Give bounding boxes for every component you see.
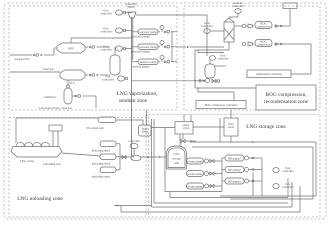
HP pump 1: [222, 155, 262, 161]
box: zone B legend: [256, 85, 316, 110]
svg-text:[MIX]: [MIX]: [127, 5, 135, 9]
SCV vaporizer: [60, 70, 85, 85]
wire: SCV outlet to drum: [85, 74, 110, 77]
wire: pump discharge header: [221, 158, 223, 192]
junction: unloading header: [147, 156, 149, 158]
in-tank pump 3: [186, 183, 210, 189]
wire: unloading main line: [62, 153, 167, 158]
unloading arm 1: [92, 141, 120, 153]
svg-text:controller: controller: [100, 48, 111, 52]
controller: level controller: [201, 21, 224, 33]
wire: compressor1 out: [253, 9, 291, 28]
wire: main sendout bus: [130, 17, 132, 156]
svg-text:HP pump1: HP pump1: [228, 156, 241, 160]
svg-text:unloading arm2: unloading arm2: [92, 162, 111, 166]
recondensate drum vessel: [205, 60, 226, 82]
svg-text:water liquid [vap] + flue gas: water liquid [vap] + flue gas: [38, 106, 72, 110]
svg-text:ORV: ORV: [68, 47, 75, 51]
svg-text:sendout pump1: sendout pump1: [132, 65, 151, 69]
svg-text:NG return arm: NG return arm: [86, 126, 104, 130]
svg-text:unloading arm3: unloading arm3: [92, 175, 111, 179]
svg-text:in-tank pump2: in-tank pump2: [186, 172, 204, 176]
BOG compressor 2: [242, 40, 272, 47]
wire: zone A to recondenser: [177, 46, 224, 48]
controller: flow controller FC5: [273, 166, 294, 173]
svg-text:controller: controller: [282, 169, 293, 173]
valve: unloading line: [122, 155, 126, 158]
wire: SCV to combustor: [67, 80, 69, 85]
wire: seawater inlet to ORV: [10, 48, 57, 56]
wire: FC2 to bus: [125, 30, 132, 32]
svg-text:controller: controller: [100, 12, 111, 16]
svg-text:seawater pump1: seawater pump1: [131, 35, 151, 39]
svg-text:controller: controller: [100, 30, 111, 34]
valve: in-tank pump 2 discharge: [210, 172, 222, 175]
box: flare stack: [224, 118, 238, 136]
svg-text:in-tank pump1: in-tank pump1: [186, 159, 204, 163]
wire: combustor outlet: [72, 95, 96, 108]
wire: vessel top to bus: [114, 47, 116, 55]
wire: recondenser to compressors: [234, 25, 248, 27]
wire: drum line to tank dome: [164, 128, 166, 151]
svg-text:recondensation zone: recondensation zone: [264, 99, 309, 105]
svg-text:storage: storage: [172, 157, 181, 161]
wire: right riser to temperature controller: [310, 44, 312, 74]
wire: ORV outlet to bus: [85, 46, 110, 49]
wire: storage header right: [190, 118, 316, 196]
LNG storage tank: [167, 146, 187, 169]
NG return arm: [86, 117, 116, 130]
valve: tank inlet: [181, 134, 196, 143]
svg-text:unloading arm1: unloading arm1: [92, 149, 111, 153]
controller: flow controller FC2: [100, 27, 125, 34]
svg-text:HP pump3: HP pump3: [228, 179, 241, 183]
valve and meter after seawater pump P2: [158, 41, 177, 49]
mixer MIX: [125, 2, 137, 18]
in-tank pump 2: [186, 171, 210, 177]
valve and meter after sendout pump P3: [158, 56, 177, 64]
valve and meter after seawater pump P1: [158, 26, 177, 34]
svg-text:controller: controller: [102, 78, 113, 82]
in-tank pump 1: [186, 158, 210, 164]
svg-text:tank: tank: [174, 161, 180, 165]
combustor: [44, 85, 72, 104]
svg-text:in-tank pump3: in-tank pump3: [186, 184, 204, 188]
HP pump 2: [222, 167, 262, 173]
svg-text:unloading arm: unloading arm: [43, 162, 61, 166]
unloading arm tower: [43, 125, 62, 166]
svg-text:seawater pump1: seawater pump1: [131, 50, 151, 54]
wire: storage header 2: [192, 147, 313, 199]
unloading arm 3: [92, 167, 120, 179]
seawater pump P1: [138, 29, 158, 35]
svg-text:SCV: SCV: [69, 81, 76, 85]
svg-text:controller: controller: [232, 4, 243, 8]
box: temperature controller: [247, 70, 291, 78]
wire: recirculation line 2: [152, 119, 293, 207]
controller: flow controller FC6: [273, 182, 294, 189]
drain drum: [139, 125, 152, 136]
knockout drum vessel: [110, 55, 120, 75]
booster pump: [131, 155, 141, 161]
zone box: LNG storage: [149, 115, 321, 218]
svg-text:LNG vaporization,: LNG vaporization,: [117, 91, 158, 97]
svg-text:HP pump2: HP pump2: [228, 168, 241, 172]
wire: drain drum to safety valve: [151, 127, 175, 129]
svg-text:sendout pump: sendout pump: [140, 60, 157, 64]
valve: in-tank pump 1 discharge: [210, 159, 222, 162]
wire: flare bottom: [230, 136, 232, 142]
controller: BOG blower controller: [128, 139, 139, 155]
wire: ORV top: [70, 38, 72, 43]
HP pump 3: [222, 178, 262, 184]
svg-text:combustor: combustor: [44, 95, 56, 99]
ORV vaporizer: [57, 43, 85, 53]
svg-text:seawater/NG: seawater/NG: [14, 57, 30, 61]
svg-text:sendout zone: sendout zone: [119, 98, 148, 104]
wire: recondenser bottom loop: [195, 42, 256, 101]
wire: water gas inlet: [10, 71, 60, 73]
valve: recondensate return: [212, 79, 220, 82]
svg-text:controller: controller: [217, 57, 228, 61]
aftercooler box: [283, 3, 297, 9]
svg-text:BOG compression,: BOG compression,: [265, 92, 307, 98]
svg-text:LNG storage zone: LNG storage zone: [246, 124, 286, 130]
wire: bus to sendout pump P3: [132, 61, 138, 63]
BOG compressor 1: [242, 22, 272, 29]
valve: in-tank pump 3 discharge: [210, 184, 222, 187]
svg-text:controller: controller: [201, 24, 212, 28]
wire: FC1 to bus: [125, 12, 132, 14]
svg-text:drum: drum: [142, 130, 149, 134]
svg-text:LNG unloading zone: LNG unloading zone: [17, 196, 63, 202]
wire: vapour return from ship: [16, 118, 98, 143]
svg-text:compressor: compressor: [257, 25, 271, 29]
wire: FC3 to bus: [125, 48, 132, 50]
wire: HP pump header: [261, 158, 263, 196]
box: safety valve: [175, 122, 193, 135]
svg-text:water gas: water gas: [42, 67, 54, 71]
controller: flow controller FC1: [100, 9, 125, 16]
LNG carrier ship: [11, 142, 62, 163]
svg-text:temperature controller: temperature controller: [256, 72, 282, 76]
wire: pumps collection: [220, 172, 316, 199]
wire: tank top to safety valve: [179, 134, 181, 146]
wire: recirculation line 1: [170, 178, 288, 198]
wire: arm header: [119, 144, 121, 170]
svg-text:LNG carrier: LNG carrier: [20, 159, 34, 163]
zone box: BOG compression recondensation: [184, 6, 320, 110]
sendout pump P3: [138, 59, 158, 65]
svg-text:seawater pump: seawater pump: [139, 30, 157, 34]
wire: compressor2 to right riser: [253, 43, 312, 45]
zone box: LNG vaporization sendout: [9, 6, 177, 110]
wire: safety valve vent: [184, 115, 191, 122]
zone box: LNG unloading: [9, 118, 146, 218]
svg-text:BOG compressor controller: BOG compressor controller: [205, 103, 238, 107]
wire: bus to seawater pump P2: [132, 46, 138, 48]
svg-text:valve: valve: [183, 126, 190, 130]
unloading arm 2: [92, 154, 120, 166]
svg-text:seawater pump: seawater pump: [139, 45, 157, 49]
box: BOG compressor controller: [196, 101, 246, 109]
svg-text:compressor: compressor: [257, 43, 271, 47]
controller: flow controller FC4: [102, 75, 127, 82]
controller: flow controller FC7: [210, 54, 229, 61]
svg-text:LNG: LNG: [173, 152, 180, 156]
wire: safety valve to flare: [193, 126, 224, 128]
svg-text:stack: stack: [228, 125, 235, 129]
wire: return arm to drain drum: [116, 120, 143, 125]
wire: bus to seawater pump P1: [132, 31, 138, 33]
controller: pressure controller: [229, 1, 244, 19]
wire: drain drum riser: [146, 110, 148, 125]
wire: flare top: [230, 110, 232, 118]
controller: flow controller FC3: [100, 45, 125, 52]
wire: sendout header: [171, 32, 173, 62]
wire: BOG return line: [114, 186, 300, 212]
recondenser column: [224, 18, 234, 42]
wire: tank bottom manifold: [165, 150, 222, 192]
wire: recondensate return to sendout bus: [132, 80, 205, 82]
wire: mixer top line: [136, 15, 207, 56]
svg-text:controller: controller: [128, 139, 139, 143]
seawater pump P2: [138, 44, 158, 50]
